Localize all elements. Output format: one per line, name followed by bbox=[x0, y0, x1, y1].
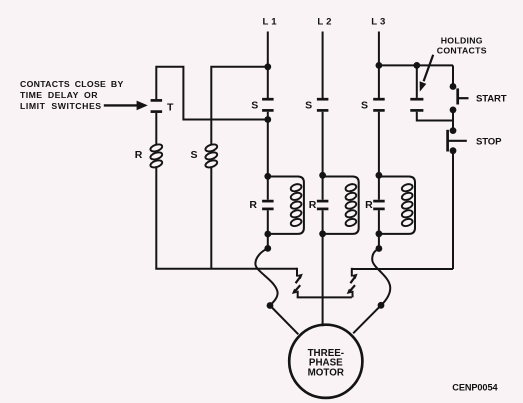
svg-text:L 3: L 3 bbox=[371, 17, 385, 28]
junction dots bbox=[264, 62, 456, 309]
wire R branch down bbox=[155, 166, 157, 268]
node R3 bottom bbox=[376, 230, 383, 237]
contact R3 bbox=[373, 201, 385, 209]
svg-text:TIME DELAY OR: TIME DELAY OR bbox=[20, 90, 98, 100]
node R1 top bbox=[264, 173, 271, 180]
svg-text:T: T bbox=[167, 101, 174, 113]
node L3 tap top bbox=[376, 62, 383, 69]
resistor coil 3 bbox=[379, 177, 415, 234]
node R1 bottom bbox=[264, 231, 271, 238]
svg-text:S: S bbox=[251, 99, 258, 111]
wire motor lead left bbox=[270, 306, 298, 335]
motor M bbox=[289, 325, 362, 398]
svg-text:R: R bbox=[249, 199, 257, 211]
node L3 label bbox=[371, 17, 385, 28]
wire S coil branch top bbox=[211, 67, 267, 146]
overload heater 1 bbox=[292, 268, 303, 298]
svg-text:L 2: L 2 bbox=[317, 17, 331, 28]
node R2 bottom bbox=[319, 230, 326, 237]
contact S2 label bbox=[305, 99, 312, 111]
wire L1 lower bbox=[267, 210, 269, 248]
wire heater bus bottom bbox=[297, 296, 352, 298]
wire control down to START bbox=[452, 65, 454, 86]
resistor coil 2 bbox=[323, 177, 359, 234]
node L1 label bbox=[262, 17, 277, 28]
svg-text:S: S bbox=[190, 149, 197, 161]
note text holding contacts bbox=[437, 35, 487, 55]
node R3 top bbox=[376, 172, 383, 179]
wire control bottom horizontal bbox=[352, 268, 453, 270]
figure number CENP0054 bbox=[452, 383, 498, 393]
wire STOP down bbox=[452, 151, 454, 269]
wire L2 lower to motor bbox=[322, 210, 324, 326]
resistor coil 1 bbox=[268, 177, 304, 234]
wire L3 upper bbox=[378, 32, 380, 99]
svg-text:CENP0054: CENP0054 bbox=[452, 383, 498, 393]
contact S1 label bbox=[251, 99, 258, 111]
svg-text:R: R bbox=[365, 199, 373, 211]
node holding tap bbox=[413, 62, 420, 69]
wire L2 mid bbox=[322, 112, 324, 200]
svg-text:CONTACTS CLOSE BY: CONTACTS CLOSE BY bbox=[20, 79, 124, 89]
svg-text:START: START bbox=[476, 93, 507, 104]
node START bottom bbox=[450, 107, 457, 114]
contact S3 bbox=[373, 99, 385, 110]
note arrow holding bbox=[420, 55, 434, 92]
wire L3 mid bbox=[378, 112, 380, 200]
wire L3 lower bbox=[378, 210, 380, 248]
coil S (left) bbox=[205, 143, 219, 169]
node curve2 bottom bbox=[378, 302, 385, 309]
wire L3 top tap to control bbox=[379, 64, 453, 66]
node curve1 bottom bbox=[267, 302, 274, 309]
svg-text:HOLDING: HOLDING bbox=[441, 35, 483, 45]
pushbutton STOP label bbox=[476, 137, 502, 148]
node L1 T-branch join bbox=[264, 116, 271, 123]
pushbutton STOP bbox=[448, 130, 467, 152]
svg-text:R: R bbox=[309, 199, 317, 211]
svg-text:MOTOR: MOTOR bbox=[308, 367, 344, 378]
motor label bbox=[308, 348, 344, 378]
wire S branch down bbox=[210, 166, 212, 268]
contact holding bbox=[410, 99, 423, 110]
svg-text:STOP: STOP bbox=[476, 137, 502, 148]
wire bottom bus left bbox=[155, 268, 297, 270]
overload heater 2 bbox=[347, 268, 358, 298]
contact S1 bbox=[262, 99, 274, 110]
note arrow left bbox=[104, 101, 148, 111]
wire T to coil R bbox=[155, 113, 157, 146]
coil R label bbox=[135, 149, 143, 161]
svg-text:S: S bbox=[305, 99, 312, 111]
wire L2 upper bbox=[322, 32, 324, 99]
contact T label bbox=[167, 101, 174, 113]
wire START to STOP bbox=[452, 110, 454, 131]
contact R2 bbox=[317, 201, 329, 209]
node L2 label bbox=[317, 17, 331, 28]
node STOP bottom bbox=[450, 147, 457, 154]
wire S-curve left bbox=[255, 248, 277, 305]
node R2 top bbox=[319, 172, 326, 179]
svg-text:S: S bbox=[361, 99, 368, 111]
svg-text:LIMIT SWITCHES: LIMIT SWITCHES bbox=[20, 101, 102, 111]
node L1 tap top bbox=[264, 63, 271, 70]
note text left bbox=[20, 79, 124, 111]
wire S-curve right bbox=[372, 249, 390, 306]
node curve2 top bbox=[376, 245, 383, 252]
svg-text:CONTACTS: CONTACTS bbox=[437, 45, 487, 55]
wire T branch top bbox=[156, 67, 267, 120]
contact S2 bbox=[317, 99, 329, 110]
contact S3 label bbox=[361, 99, 368, 111]
node START top bbox=[450, 83, 457, 90]
contact R1 label bbox=[249, 199, 257, 211]
svg-text:L 1: L 1 bbox=[262, 17, 277, 28]
contact T bbox=[151, 100, 163, 111]
pushbutton START bbox=[458, 88, 469, 104]
coil S label bbox=[190, 149, 197, 161]
node curve1 top bbox=[264, 245, 271, 252]
svg-text:R: R bbox=[135, 149, 143, 161]
wire holding contact stem bbox=[416, 65, 418, 98]
coil R (left) bbox=[150, 143, 164, 169]
contact R3 label bbox=[365, 199, 373, 211]
wire holding contact bottom bbox=[417, 112, 453, 121]
contact R1 bbox=[262, 201, 274, 209]
wire L1 mid bbox=[267, 112, 269, 200]
node STOP top bbox=[450, 127, 457, 134]
wire L1 upper bbox=[267, 32, 269, 99]
contact R2 label bbox=[309, 199, 317, 211]
pushbutton START label bbox=[476, 93, 507, 104]
wire motor lead right bbox=[353, 305, 381, 333]
